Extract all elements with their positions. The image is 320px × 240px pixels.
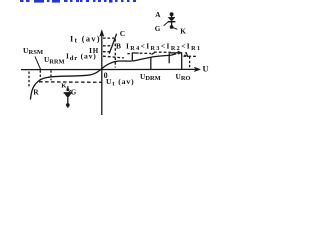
final riser at URO down to axis bbox=[181, 53, 183, 69]
anode terminal dot bbox=[170, 12, 174, 16]
dashed vertical at URRM tick bbox=[50, 70, 52, 80]
svg-text:G: G bbox=[155, 25, 161, 33]
dashed level Idr(av) bbox=[103, 51, 110, 53]
dashed segment after step 1 bbox=[140, 52, 151, 54]
dashed vertical URSM region (left) bbox=[28, 72, 30, 88]
riser 1 top bar bbox=[132, 52, 138, 54]
final top bar to point A bbox=[170, 52, 182, 54]
dashed level It(av) bbox=[103, 37, 114, 39]
svg-text:K: K bbox=[61, 83, 67, 90]
svg-text:URRM: URRM bbox=[44, 55, 65, 65]
gate lead bbox=[164, 22, 168, 26]
svg-text:U: U bbox=[203, 65, 209, 74]
clipped blue caption text fragments at top bbox=[20, 0, 136, 3]
svg-text:G: G bbox=[71, 89, 77, 96]
svg-text:Idr (av): Idr (av) bbox=[66, 52, 97, 62]
cathode tick to K bbox=[173, 28, 177, 30]
riser 3 bbox=[168, 53, 170, 63]
dashed segment over step 1 bbox=[127, 53, 131, 55]
small sloped connector arrow bbox=[151, 52, 155, 54]
triangle bbox=[65, 94, 71, 98]
text labels bbox=[23, 11, 209, 96]
svg-text:A: A bbox=[155, 11, 161, 19]
cathode wire bbox=[171, 22, 173, 25]
svg-text:UDRM: UDRM bbox=[140, 72, 161, 82]
UDRM riser (solid part) bbox=[150, 57, 152, 70]
anode wire bbox=[67, 98, 69, 104]
svg-text:Ut (av): Ut (av) bbox=[106, 77, 135, 87]
I axis arrowhead bbox=[100, 30, 104, 37]
URSM leader line bbox=[35, 57, 41, 70]
dashed horizontal reverse leakage level bbox=[39, 81, 102, 84]
I axis (vertical) bbox=[101, 35, 103, 116]
svg-text:K: K bbox=[180, 28, 186, 36]
dashed level IH bbox=[103, 45, 112, 47]
cathode terminal dot bbox=[170, 25, 174, 29]
cathode bar bbox=[64, 92, 72, 94]
breakover riser 1 (IR1) bbox=[131, 53, 133, 62]
svg-text:R: R bbox=[33, 88, 39, 97]
dashed segment toward A bbox=[154, 51, 171, 53]
anode terminal dot bbox=[66, 103, 70, 107]
svg-text:A: A bbox=[184, 51, 190, 59]
junction dot bbox=[66, 88, 69, 91]
gate lead bbox=[69, 90, 71, 92]
svg-text:IR4<IR3<IR2<IR1: IR4<IR3<IR2<IR1 bbox=[126, 42, 201, 52]
forward off-state leakage curve (through origin, flattens) bbox=[102, 61, 132, 69]
U axis arrowhead bbox=[194, 67, 200, 71]
cathode bar bbox=[168, 21, 176, 23]
svg-text:URO: URO bbox=[176, 72, 191, 82]
dashed segment right of A bbox=[184, 55, 197, 57]
wire tail bbox=[67, 107, 69, 108]
svg-text:B: B bbox=[116, 42, 121, 51]
thyristor symbol (reverse, below axis) bbox=[64, 86, 72, 108]
cathode wire from K bbox=[67, 86, 69, 89]
triangle bbox=[168, 17, 175, 21]
svg-text:URSM: URSM bbox=[23, 46, 44, 56]
on-state steep curve (B-C) bbox=[109, 34, 116, 54]
dashed vertical URO marker bbox=[189, 57, 191, 70]
arrowhead near point A bbox=[178, 51, 182, 54]
rising blocking-curve line between steps bbox=[133, 54, 176, 61]
thyristor symbol (forward, top right) bbox=[164, 12, 178, 29]
reverse characteristic curve (third quadrant) bbox=[30, 69, 101, 100]
U axis (horizontal) bbox=[21, 68, 197, 70]
dashed vertical Ut(av) marker bbox=[114, 39, 116, 68]
dashed vertical at URSM tick bbox=[39, 70, 41, 80]
svg-text:It (av): It (av) bbox=[70, 35, 101, 45]
anode wire bbox=[171, 16, 173, 18]
long dashed unstable region segment 1 bbox=[103, 56, 124, 58]
svg-text:C: C bbox=[120, 29, 126, 38]
